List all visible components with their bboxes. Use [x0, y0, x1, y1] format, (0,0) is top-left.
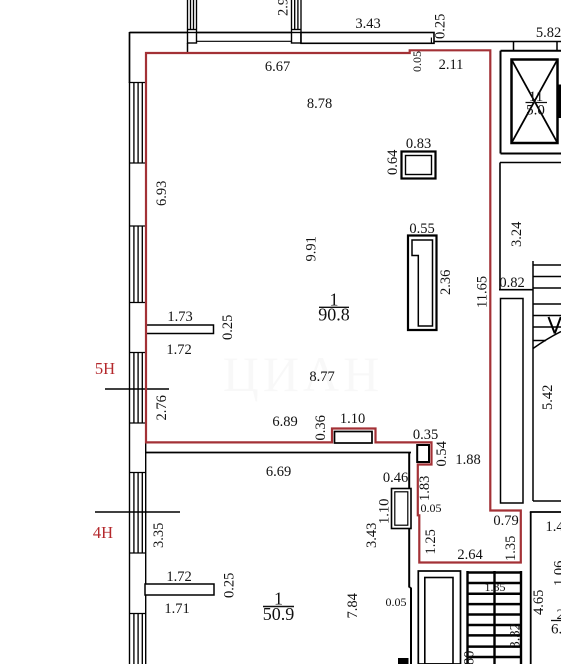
svg-text:1.35: 1.35 [485, 580, 506, 594]
svg-text:6.5: 6.5 [551, 622, 561, 638]
svg-text:2.36: 2.36 [438, 270, 454, 295]
svg-text:9.91: 9.91 [304, 236, 320, 261]
svg-text:0.54: 0.54 [434, 440, 450, 466]
svg-text:0.64: 0.64 [385, 149, 401, 175]
svg-text:0.82: 0.82 [499, 275, 524, 291]
svg-text:3.43: 3.43 [355, 16, 380, 32]
svg-text:5.42: 5.42 [540, 385, 556, 410]
svg-text:0.35: 0.35 [413, 427, 438, 443]
svg-text:1.10: 1.10 [377, 499, 393, 524]
svg-text:1.72: 1.72 [166, 569, 191, 585]
svg-text:0.05: 0.05 [421, 501, 442, 515]
svg-text:3.35: 3.35 [151, 523, 167, 548]
svg-text:2.64: 2.64 [457, 547, 483, 563]
svg-text:1.83: 1.83 [417, 476, 433, 501]
svg-text:2.90: 2.90 [276, 0, 292, 16]
svg-text:8.77: 8.77 [309, 369, 334, 385]
svg-text:5H: 5H [95, 359, 115, 378]
svg-text:5.82: 5.82 [536, 25, 561, 41]
svg-text:0.79: 0.79 [493, 513, 518, 529]
svg-text:1.73: 1.73 [167, 309, 192, 325]
svg-text:4.65: 4.65 [531, 590, 547, 615]
svg-text:0.36: 0.36 [313, 415, 329, 440]
svg-text:3.24: 3.24 [509, 221, 525, 247]
svg-text:0.25: 0.25 [220, 315, 236, 340]
svg-text:1.06: 1.06 [552, 561, 561, 586]
svg-text:0.55: 0.55 [409, 221, 434, 237]
svg-text:6.93: 6.93 [154, 181, 170, 206]
svg-text:1.10: 1.10 [340, 411, 365, 427]
svg-text:0.05: 0.05 [386, 595, 407, 609]
svg-text:0.05: 0.05 [410, 51, 424, 72]
svg-text:1.45: 1.45 [546, 519, 561, 535]
svg-text:ЦИАН: ЦИАН [223, 346, 383, 402]
svg-text:1.80: 1.80 [462, 651, 478, 664]
svg-text:2.11: 2.11 [439, 57, 464, 73]
svg-text:0.83: 0.83 [406, 136, 431, 152]
svg-text:3.43: 3.43 [364, 523, 380, 548]
svg-text:2.76: 2.76 [154, 395, 170, 420]
svg-text:5.0: 5.0 [526, 103, 545, 119]
svg-text:0.46: 0.46 [383, 470, 408, 486]
svg-text:1.35: 1.35 [503, 536, 519, 561]
svg-text:6.89: 6.89 [272, 414, 297, 430]
svg-text:7.84: 7.84 [345, 592, 361, 618]
svg-text:1.88: 1.88 [455, 452, 480, 468]
svg-text:4H: 4H [93, 523, 113, 542]
svg-text:1.25: 1.25 [423, 529, 439, 554]
svg-text:1.72: 1.72 [166, 342, 191, 358]
svg-text:0.25: 0.25 [433, 14, 449, 39]
svg-text:3.32: 3.32 [508, 623, 524, 648]
svg-text:6.67: 6.67 [265, 59, 290, 75]
svg-text:0.25: 0.25 [222, 573, 238, 598]
svg-text:1.71: 1.71 [164, 601, 189, 617]
svg-text:8.78: 8.78 [307, 96, 332, 112]
svg-text:6.69: 6.69 [266, 464, 291, 480]
svg-text:11.65: 11.65 [475, 276, 491, 308]
